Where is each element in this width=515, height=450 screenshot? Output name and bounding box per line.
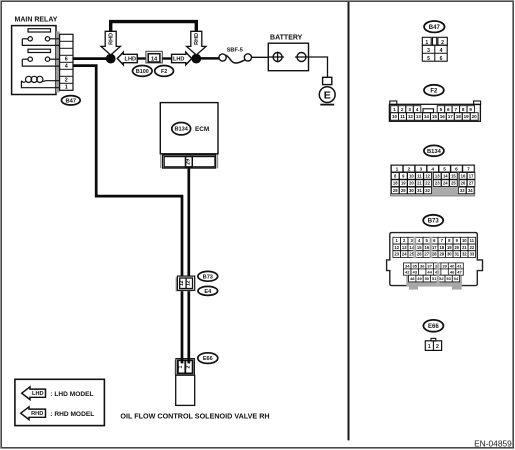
svg-text:13: 13 [435, 174, 440, 179]
svg-text:SBF-5: SBF-5 [227, 48, 243, 54]
svg-text:44: 44 [427, 270, 432, 275]
svg-text:B47: B47 [65, 98, 76, 104]
svg-text:43: 43 [412, 270, 417, 275]
svg-text:10: 10 [409, 174, 414, 179]
svg-text:48: 48 [410, 276, 415, 281]
svg-text:28: 28 [393, 188, 398, 193]
svg-text:1: 1 [65, 85, 68, 91]
svg-text:ECM: ECM [195, 126, 209, 133]
svg-text:16: 16 [461, 174, 466, 179]
svg-text:18: 18 [439, 245, 444, 250]
svg-text:11: 11 [400, 114, 405, 119]
svg-text:2: 2 [408, 166, 411, 172]
svg-text:9: 9 [469, 107, 472, 112]
svg-text:LHD: LHD [125, 57, 137, 63]
svg-text:6: 6 [65, 57, 68, 63]
svg-text:50: 50 [425, 276, 430, 281]
svg-text:RHD: RHD [31, 411, 43, 417]
svg-text:53: 53 [446, 276, 451, 281]
svg-text:17: 17 [432, 245, 437, 250]
svg-text:12: 12 [425, 174, 430, 179]
svg-text:47: 47 [457, 270, 462, 275]
svg-text:34: 34 [405, 263, 410, 268]
svg-text:F2: F2 [161, 69, 167, 75]
svg-text:30: 30 [447, 252, 452, 257]
svg-text:34: 34 [468, 188, 473, 193]
svg-text:7: 7 [455, 107, 458, 112]
svg-text:11: 11 [470, 238, 475, 243]
svg-text:MAIN RELAY: MAIN RELAY [15, 16, 58, 23]
svg-text:4: 4 [440, 48, 443, 54]
svg-text:13: 13 [402, 245, 407, 250]
svg-text:LHD: LHD [173, 57, 185, 63]
svg-text:24: 24 [443, 181, 448, 186]
svg-text:E: E [324, 89, 331, 101]
svg-text:B47: B47 [429, 25, 441, 31]
svg-text:32: 32 [462, 252, 467, 257]
svg-text:14: 14 [443, 174, 448, 179]
svg-text:18: 18 [456, 114, 462, 119]
svg-text:21: 21 [462, 245, 467, 250]
svg-text:5: 5 [443, 166, 446, 172]
svg-text:RHD: RHD [109, 33, 115, 45]
svg-text:4: 4 [431, 166, 434, 172]
svg-text:E66: E66 [203, 356, 213, 362]
svg-text:16: 16 [424, 245, 429, 250]
svg-text:23: 23 [394, 252, 399, 257]
svg-text:15: 15 [417, 245, 422, 250]
svg-text:B134: B134 [175, 127, 189, 133]
svg-text:31: 31 [417, 188, 422, 193]
svg-text:16: 16 [440, 114, 446, 119]
svg-text:22: 22 [425, 181, 430, 186]
svg-text:29: 29 [439, 252, 444, 257]
svg-text:4: 4 [65, 64, 68, 70]
svg-text:36: 36 [420, 263, 425, 268]
svg-text:1: 1 [393, 107, 396, 112]
svg-text:EN-04859: EN-04859 [474, 439, 512, 449]
svg-text:41: 41 [457, 263, 462, 268]
svg-text:3: 3 [408, 107, 411, 112]
svg-text:33: 33 [460, 188, 465, 193]
svg-text:1: 1 [178, 365, 184, 368]
svg-text:2: 2 [401, 107, 404, 112]
svg-text:1: 1 [396, 166, 399, 172]
svg-text:23: 23 [435, 181, 440, 186]
svg-text:22: 22 [470, 245, 475, 250]
svg-text:29: 29 [185, 159, 191, 165]
svg-text:BATTERY: BATTERY [270, 35, 303, 42]
svg-text:RHD: RHD [194, 33, 200, 45]
svg-text:42: 42 [405, 270, 410, 275]
svg-text:3: 3 [427, 48, 430, 54]
svg-text:2: 2 [65, 78, 68, 84]
svg-text:25: 25 [451, 181, 456, 186]
svg-text:15: 15 [451, 174, 456, 179]
svg-text:B73: B73 [203, 274, 213, 280]
svg-text:B100: B100 [136, 69, 149, 75]
svg-text:32: 32 [425, 188, 430, 193]
svg-text:F2: F2 [430, 88, 438, 94]
svg-text:20: 20 [454, 245, 459, 250]
svg-text:17: 17 [469, 174, 474, 179]
svg-text:28: 28 [432, 252, 437, 257]
svg-text:E66: E66 [428, 324, 439, 330]
svg-text:OIL FLOW CONTROL SOLENOID VALV: OIL FLOW CONTROL SOLENOID VALVE RH [120, 411, 269, 420]
svg-text:11: 11 [417, 174, 422, 179]
svg-text:26: 26 [461, 181, 466, 186]
svg-text:19: 19 [464, 114, 470, 119]
svg-text:12: 12 [186, 280, 192, 286]
svg-text:33: 33 [470, 252, 475, 257]
svg-text:7: 7 [467, 166, 470, 172]
svg-text:12: 12 [408, 114, 414, 119]
svg-text:3: 3 [419, 166, 422, 172]
svg-text:52: 52 [439, 276, 444, 281]
svg-text:20: 20 [409, 181, 414, 186]
svg-text:29: 29 [401, 188, 406, 193]
svg-text:49: 49 [417, 276, 422, 281]
svg-text:35: 35 [412, 263, 417, 268]
svg-text:E4: E4 [204, 289, 212, 295]
svg-text:46: 46 [450, 270, 455, 275]
svg-text:40: 40 [450, 263, 455, 268]
svg-text:1: 1 [428, 344, 431, 350]
svg-text:2: 2 [185, 365, 191, 368]
svg-text:14: 14 [151, 56, 158, 62]
svg-text:12: 12 [394, 245, 399, 250]
svg-text:5: 5 [440, 107, 443, 112]
svg-text:: RHD MODEL: : RHD MODEL [50, 411, 94, 418]
svg-text:30: 30 [409, 188, 414, 193]
svg-text:18: 18 [393, 181, 398, 186]
svg-text:27: 27 [469, 181, 474, 186]
svg-text:6: 6 [447, 107, 450, 112]
svg-text:37: 37 [427, 263, 432, 268]
svg-text:14: 14 [424, 114, 430, 119]
svg-text:B73: B73 [428, 219, 440, 225]
svg-text:10: 10 [392, 114, 398, 119]
svg-text:12: 12 [179, 280, 185, 286]
svg-text:15: 15 [432, 114, 438, 119]
svg-text:6: 6 [440, 56, 443, 62]
svg-text:39: 39 [442, 263, 447, 268]
svg-text:51: 51 [432, 276, 437, 281]
svg-text:6: 6 [455, 166, 458, 172]
svg-text:10: 10 [462, 238, 467, 243]
svg-text:17: 17 [448, 114, 454, 119]
svg-text:2: 2 [436, 344, 439, 350]
svg-text:26: 26 [417, 252, 422, 257]
svg-text:31: 31 [454, 252, 459, 257]
svg-text:4: 4 [416, 107, 419, 112]
svg-text:27: 27 [424, 252, 429, 257]
svg-text:B134: B134 [427, 149, 442, 155]
svg-text:21: 21 [417, 181, 422, 186]
svg-text:19: 19 [447, 245, 452, 250]
svg-text:: LHD MODEL: : LHD MODEL [50, 391, 93, 398]
svg-text:20: 20 [472, 114, 478, 119]
svg-text:54: 54 [454, 276, 459, 281]
svg-text:13: 13 [416, 114, 422, 119]
svg-text:5: 5 [427, 56, 430, 62]
svg-text:LHD: LHD [32, 391, 44, 397]
svg-text:19: 19 [401, 181, 406, 186]
svg-text:24: 24 [402, 252, 407, 257]
svg-text:8: 8 [462, 107, 465, 112]
